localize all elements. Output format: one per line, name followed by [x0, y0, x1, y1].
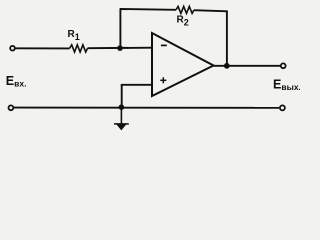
wire: op-amp output: [213, 65, 281, 67]
resistor R1: [70, 45, 88, 52]
wire: bottom common rail: [14, 107, 279, 109]
wire: non-inverting input vertical drop: [121, 85, 123, 108]
wire: input terminal to R1: [15, 47, 69, 49]
wire: feedback right vertical: [226, 11, 228, 67]
wire: feedback left vertical: [119, 9, 121, 48]
node: inverting input junction: [117, 45, 123, 51]
wire: non-inverting input horizontal: [121, 84, 152, 86]
op-amp inverting input label (minus): [161, 44, 167, 46]
input terminal top-left: [10, 46, 15, 51]
wire: feedback top right segment: [194, 10, 228, 11]
output terminal top-right: [281, 63, 286, 68]
resistor R2: [176, 6, 194, 13]
node: output junction: [224, 63, 230, 69]
terminal bottom-right: [280, 105, 285, 110]
op-amp U1: [152, 33, 214, 96]
op-amp non-inverting input label (plus): [160, 77, 166, 83]
ground: [114, 107, 129, 130]
terminal bottom-left: [9, 105, 14, 110]
wire: feedback top left segment: [120, 8, 176, 11]
node: ground junction: [119, 104, 125, 110]
wire: R1 to op-amp inverting input: [88, 47, 153, 50]
